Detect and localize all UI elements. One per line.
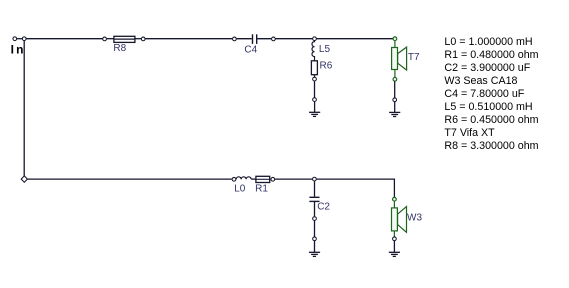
capacitor C4 bbox=[237, 34, 272, 44]
node junction top L5 bbox=[313, 37, 317, 41]
node below R6 bbox=[313, 77, 317, 81]
svg-text:C4 = 7.80000 uF: C4 = 7.80000 uF bbox=[444, 88, 524, 100]
svg-text:R6 = 0.450000 ohm: R6 = 0.450000 ohm bbox=[444, 114, 538, 126]
svg-text:W3: W3 bbox=[407, 212, 422, 223]
wire R8 to C4 bbox=[145, 38, 232, 40]
node R8 left bbox=[103, 37, 107, 41]
resistor R8 bbox=[107, 36, 141, 42]
wire C4 to node L5 bbox=[276, 38, 313, 40]
value text block bbox=[444, 36, 538, 152]
ground under W3 bbox=[389, 252, 400, 256]
svg-text:W3 Seas CA18: W3 Seas CA18 bbox=[444, 75, 517, 87]
wire node to node C2 column bbox=[314, 221, 316, 237]
resistor R6 bbox=[311, 61, 317, 75]
node above ground C2 column bbox=[313, 237, 317, 241]
wire In down to bottom bbox=[23, 41, 25, 176]
node C4 left bbox=[233, 37, 237, 41]
svg-text:C2: C2 bbox=[317, 202, 330, 213]
inductor L5 bbox=[312, 41, 315, 61]
node junction C2 bbox=[313, 177, 317, 181]
svg-text:R1 = 0.480000 ohm: R1 = 0.480000 ohm bbox=[444, 49, 538, 61]
svg-text:R8 = 3.300000 ohm: R8 = 3.300000 ohm bbox=[444, 140, 538, 152]
svg-text:In: In bbox=[11, 43, 26, 57]
svg-text:L0: L0 bbox=[234, 183, 246, 194]
node R1 right bbox=[271, 177, 275, 181]
ground under C2 bbox=[309, 252, 320, 256]
diamond node bottom-left bbox=[21, 176, 27, 182]
wire R1 node to C2 node bbox=[275, 178, 312, 180]
node above ground L5 column bbox=[313, 98, 317, 102]
wire node to ground T7 bbox=[394, 102, 396, 112]
speaker W3 bbox=[392, 197, 407, 236]
speaker T7 bbox=[392, 37, 407, 81]
wire L0 to R1 bbox=[251, 178, 256, 180]
svg-text:L0 = 1.000000 mH: L0 = 1.000000 mH bbox=[444, 36, 532, 48]
node above ground T7 column bbox=[393, 98, 397, 102]
node R8 right bbox=[141, 37, 145, 41]
resistor R1 bbox=[256, 176, 270, 182]
svg-text:T7 Vifa XT: T7 Vifa XT bbox=[444, 127, 495, 139]
ground under R6 bbox=[309, 112, 320, 116]
ground under T7 bbox=[389, 112, 400, 116]
wire node to ground bbox=[314, 102, 316, 113]
node below C2 bbox=[313, 217, 317, 221]
svg-text:C2 = 3.900000 uF: C2 = 3.900000 uF bbox=[444, 62, 530, 74]
wire between In circles bbox=[17, 38, 22, 40]
svg-text:C4: C4 bbox=[244, 44, 257, 55]
wire node L5 to T7 bbox=[317, 38, 393, 40]
node C4 right bbox=[272, 37, 276, 41]
inductor L0 bbox=[236, 177, 251, 180]
svg-text:R6: R6 bbox=[320, 61, 333, 72]
node above ground W3 bbox=[393, 237, 397, 241]
terminal In circle 1 bbox=[13, 37, 17, 41]
wire C2 node to W3 corner bbox=[317, 179, 395, 197]
node L0 left bbox=[232, 177, 236, 181]
svg-text:T7: T7 bbox=[408, 52, 420, 63]
svg-text:L5 = 0.510000 mH: L5 = 0.510000 mH bbox=[444, 101, 532, 113]
wire node to ground W3 bbox=[393, 241, 395, 252]
wire node to ground C2 bbox=[314, 241, 316, 252]
terminal In circle 2 / junction bbox=[22, 37, 26, 41]
wire R6 to node bbox=[314, 75, 316, 77]
wire T7 to node bbox=[394, 82, 396, 98]
wire bottom long to L0 bbox=[27, 178, 232, 180]
svg-text:R8: R8 bbox=[113, 43, 126, 54]
svg-text:R1: R1 bbox=[255, 183, 268, 194]
wire In to R8 bbox=[26, 38, 103, 40]
wire node to node bbox=[314, 81, 316, 97]
capacitor C2 bbox=[309, 181, 319, 216]
svg-text:L5: L5 bbox=[319, 44, 331, 55]
